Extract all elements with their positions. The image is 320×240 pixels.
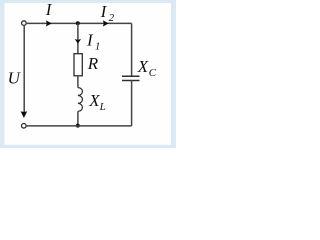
svg-text:R: R (87, 54, 99, 73)
current arrow I1 (75, 39, 81, 44)
resistor R (74, 54, 82, 76)
svg-text:1: 1 (95, 41, 101, 53)
current arrow I2 (103, 20, 109, 26)
wire left vertical (23, 26, 25, 113)
inductor XL (78, 88, 83, 112)
svg-text:U: U (8, 68, 22, 87)
svg-text:X: X (88, 91, 100, 110)
wire middle branch lower (77, 111, 79, 126)
wire middle branch upper (77, 23, 79, 53)
svg-text:2: 2 (109, 12, 115, 24)
wire between R and XL (77, 76, 79, 88)
node junction bottom (76, 124, 80, 128)
wire right vertical upper (131, 23, 133, 76)
voltage arrow U (21, 111, 28, 118)
current arrow I (46, 20, 52, 26)
capacitor XC (122, 75, 140, 77)
svg-text:X: X (137, 57, 149, 76)
terminal circle bottom-left (22, 124, 27, 129)
wire right vertical lower (131, 81, 133, 126)
node junction top (76, 21, 80, 25)
svg-text:C: C (149, 67, 157, 79)
svg-text:L: L (99, 101, 106, 113)
wire top horizontal (27, 22, 132, 24)
page frame (0, 0, 176, 148)
wire bottom horizontal (27, 125, 132, 127)
terminal circle top-left (22, 21, 27, 26)
